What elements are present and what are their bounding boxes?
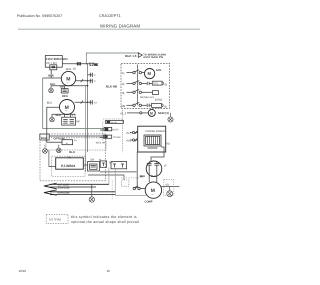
svg-text:ASSY MAIN PW: ASSY MAIN PW: [143, 56, 163, 59]
svg-text:WIRING DIAGRAM: WIRING DIAGRAM: [100, 23, 140, 28]
bus branch row1: [88, 74, 93, 76]
gray return wires: [109, 168, 146, 196]
remote board box: [56, 158, 84, 169]
svg-text:(B: (B: [165, 83, 168, 86]
svg-text:optional,the actual shape shal: optional,the actual shape shall prevail: [71, 220, 139, 224]
svg-text:BLK: BLK: [69, 150, 75, 154]
svg-text:60 + 1H: 60 + 1H: [46, 61, 56, 65]
svg-text:this symbol indicates the elem: this symbol indicates the element is: [71, 215, 137, 219]
wire option to remote board: [49, 150, 56, 166]
small dashed sensor box left of ovld: [122, 180, 129, 186]
earth terminal funnel 1: [44, 183, 109, 189]
sensor long box: [106, 121, 124, 124]
connector box B: [111, 162, 127, 169]
svg-text:6P: 6P: [76, 120, 80, 124]
dashed vertical right of cluster: [122, 110, 124, 152]
wire from display to right: [88, 175, 124, 180]
svg-text:OPTION: OPTION: [53, 137, 64, 141]
M1 neutral wire: [51, 86, 88, 89]
svg-text:RT1: RT1: [154, 82, 159, 85]
svg-text:M: M: [150, 111, 153, 115]
fan motor (in box): [145, 69, 155, 79]
svg-text:BLK: BLK: [151, 175, 156, 178]
wire L1 top: [62, 63, 96, 65]
note dashed box: [46, 214, 68, 223]
svg-text:1P: 1P: [164, 165, 167, 168]
svg-text:BLK NB: BLK NB: [106, 85, 117, 89]
svg-text:NT SYM: NT SYM: [49, 218, 61, 222]
branch row2 bracket: [90, 79, 92, 83]
branch row1 bracket: [90, 73, 92, 77]
ground symbol G3b: [57, 145, 62, 153]
svg-text:BRN: BRN: [66, 68, 72, 71]
svg-text:BLK 1.5: BLK 1.5: [125, 54, 137, 58]
svg-text:BLK: BLK: [50, 83, 55, 86]
display box: [88, 162, 100, 172]
connector pair on wire: [77, 62, 80, 66]
sensor box RM: [100, 127, 112, 130]
dashed box around compressor ground: [164, 179, 174, 195]
svg-text:DB: DB: [91, 159, 95, 162]
chassis ground circle: [168, 113, 173, 122]
svg-text:Remote recv: Remote recv: [140, 96, 155, 99]
svg-text:RD: RD: [166, 142, 170, 145]
option relay box: [47, 140, 73, 145]
sensor box coil: [49, 135, 112, 138]
svg-text:BLU: BLU: [47, 100, 52, 104]
svg-text:3(: 3(: [122, 91, 125, 95]
power supply box: [45, 56, 62, 68]
ground G2 stem: [51, 114, 53, 117]
power board input contacts: [130, 131, 138, 141]
svg-text:1a: 1a: [74, 139, 77, 142]
svg-text:POWER BOARD: POWER BOARD: [146, 130, 166, 133]
earth terminal funnel 2: [44, 190, 115, 195]
M2 right wire: [75, 101, 93, 103]
switch row 3: [127, 90, 159, 95]
capacitor to compressor leads: [149, 165, 157, 182]
svg-text:~: ~: [148, 75, 150, 79]
neutral bus junction: [86, 63, 87, 64]
connector 2 on wire: [90, 62, 93, 65]
svg-text:2(: 2(: [122, 82, 125, 86]
M2 capacitor box: [62, 117, 76, 125]
wire remote to display: [83, 164, 87, 166]
wire under connector row: [100, 171, 137, 173]
switch row 4: [127, 103, 164, 108]
svg-text:BU: BU: [109, 162, 113, 165]
connector triangle: [138, 53, 142, 58]
svg-text:30(: 30(: [121, 104, 125, 108]
dashed gray vertical: [111, 180, 113, 200]
option outer dashed enclosure: [40, 134, 106, 181]
control box (dashed): [121, 63, 169, 108]
svg-text:BLK: BLK: [48, 74, 54, 78]
dashed drop from sensor box: [102, 122, 104, 141]
wire power board down to compressor circuit: [134, 152, 137, 188]
dashed stub to ovld box: [121, 177, 139, 179]
neutral vertical 2: [85, 86, 87, 172]
switch common bus: [136, 65, 138, 106]
M1 capacitor box: [61, 89, 68, 93]
svg-text:1(: 1(: [122, 71, 125, 75]
svg-text:C: C: [94, 74, 96, 77]
switch row 1: [127, 70, 145, 74]
option dashed box: [46, 138, 106, 150]
svg-text:M: M: [99, 158, 101, 161]
ground symbol bottom: [89, 184, 94, 202]
svg-text:(GRN): (GRN): [155, 99, 163, 102]
compressor ground wire: [161, 187, 179, 191]
svg-text:PJ-WB04: PJ-WB04: [61, 164, 75, 168]
svg-text:1B: 1B: [73, 68, 76, 71]
condenser motor M2: [60, 100, 75, 115]
svg-text:XX: XX: [94, 102, 98, 105]
overload protector: [133, 186, 145, 190]
compressor ground symbol: [167, 191, 173, 197]
ground symbol G3a: [43, 145, 48, 153]
svg-text:BLK: BLK: [56, 113, 62, 117]
wire power board to capacitor: [134, 147, 164, 188]
svg-text:(B: (B: [164, 105, 167, 108]
svg-text:TM: TM: [68, 157, 72, 160]
M1 right wire row2: [76, 80, 93, 82]
header rule: [18, 29, 200, 30]
svg-text:1.5: 1.5: [72, 113, 76, 117]
svg-text:10/10: 10/10: [19, 269, 27, 273]
svg-text:NM: NM: [60, 85, 64, 88]
connector box A: [100, 161, 106, 167]
wire from plug down: [50, 70, 52, 78]
svg-text:16: 16: [107, 269, 111, 273]
riser wire to harness row: [86, 53, 138, 64]
vent motor: [148, 109, 155, 116]
switch row 2: [127, 81, 164, 86]
svg-text:RED: RED: [62, 94, 68, 98]
svg-text:W HU: W HU: [111, 121, 117, 124]
power board PCB component: [144, 135, 161, 148]
M2 left wire to option: [47, 107, 60, 142]
svg-text:(G): (G): [166, 184, 170, 187]
svg-text:SGN/LINE: SGN/LINE: [58, 186, 71, 189]
compressor motor: [145, 182, 161, 198]
power board box: [138, 126, 166, 152]
M2 capacitor leads: [65, 114, 71, 117]
svg-text:C: C: [94, 80, 96, 83]
neutral bus vertical: [87, 64, 89, 152]
svg-text:HI FA: HI FA: [112, 129, 118, 132]
sensor connector cluster dashed lead: [103, 118, 123, 120]
svg-text:BRN: BRN: [62, 57, 68, 61]
fan motor M1: [61, 71, 75, 85]
svg-text:EAR/LINE: EAR/LINE: [58, 192, 70, 195]
svg-text:CRA12EPT1: CRA12EPT1: [99, 14, 121, 18]
fan motor M1 wire left: [43, 77, 62, 79]
vent motor row: [127, 112, 148, 114]
svg-text:BLK: BLK: [41, 136, 47, 140]
svg-text:YO AN: YO AN: [113, 136, 121, 139]
dual run capacitor: [146, 161, 162, 177]
svg-text:RD(: RD(: [126, 140, 131, 143]
inner dashed box remote area: [52, 156, 85, 176]
left bus vertical: [43, 78, 104, 129]
svg-text:PL 3: PL 3: [121, 111, 127, 115]
svg-text:NEW (3): NEW (3): [158, 111, 169, 115]
svg-text:BD: BD: [140, 176, 144, 179]
svg-text:Publication No. 5995576207: Publication No. 5995576207: [17, 14, 62, 18]
M1 capacitor lead: [64, 86, 66, 89]
ground symbol G2: [50, 117, 55, 122]
M2 neutral wire: [52, 113, 76, 115]
ground symbol G1: [49, 88, 54, 93]
svg-text:COMP: COMP: [145, 200, 153, 203]
M2 branch bracket: [90, 100, 92, 104]
svg-text:BK: BK: [94, 63, 98, 66]
svg-text:OL(: OL(: [126, 132, 130, 135]
svg-text:FAN: FAN: [156, 68, 162, 72]
power plug symbol: [50, 65, 57, 70]
svg-text:WXX HR: WXX HR: [96, 142, 106, 145]
BLK tag box: [40, 134, 49, 140]
